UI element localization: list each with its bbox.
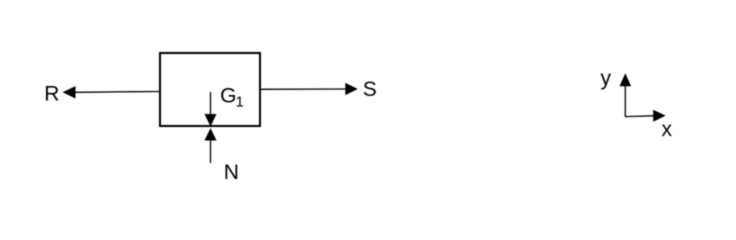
svg-text:R: R	[44, 83, 59, 106]
svg-text:S: S	[363, 78, 377, 101]
svg-text:N: N	[224, 161, 239, 184]
svg-text:G: G	[220, 85, 236, 108]
svg-text:y: y	[601, 67, 612, 90]
svg-text:x: x	[662, 118, 673, 141]
svg-text:1: 1	[236, 94, 244, 111]
